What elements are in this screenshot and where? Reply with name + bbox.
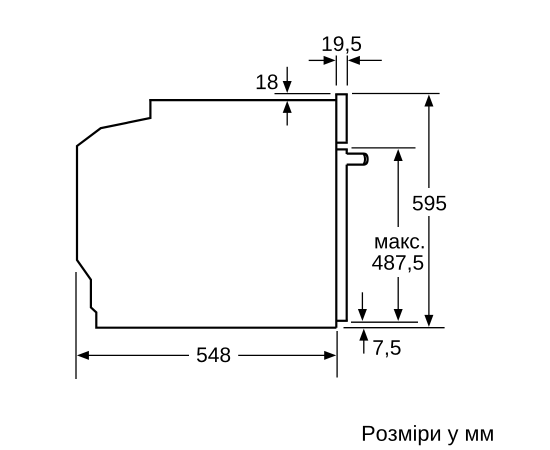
top extension line for 595 xyxy=(352,93,440,95)
dimension 548 left extension line xyxy=(75,272,77,379)
label макс. xyxy=(375,237,423,249)
door handle xyxy=(347,154,368,165)
label 487,5 xyxy=(372,255,423,272)
handle end cap arc xyxy=(364,154,365,164)
dimension 548 right extension line xyxy=(336,331,338,378)
dimension 595 bottom arrowhead xyxy=(424,315,433,327)
dimension 595 line upper segment xyxy=(428,106,430,188)
dimension 548 line right segment xyxy=(238,354,325,356)
label 18 xyxy=(257,74,278,89)
door top edge xyxy=(336,148,348,150)
dimension 595 line lower segment xyxy=(428,216,430,316)
dimension 19,5 left extension line xyxy=(335,56,337,86)
dimension 548 line left segment xyxy=(88,354,189,356)
dimension 18 upper arrowhead xyxy=(283,81,292,93)
dimension 18 lower arrow line xyxy=(286,113,288,126)
dimension 19,5 left arrow line xyxy=(309,59,324,61)
control panel top edge xyxy=(335,93,348,95)
label 19,5 xyxy=(323,36,361,53)
dimension 18 extension line xyxy=(275,93,331,95)
door right edge upper segment xyxy=(346,149,348,154)
dimension 595 top arrowhead xyxy=(424,95,433,107)
dimension 548 left arrowhead xyxy=(77,351,89,360)
caption Розміри у мм xyxy=(363,425,493,445)
dimension 19,5 right extension line xyxy=(346,56,348,86)
label 595 xyxy=(413,196,446,211)
dimension 7,5 lower arrowhead xyxy=(359,329,368,341)
dimension 7,5 upper arrowhead xyxy=(358,309,367,321)
dimension 18 upper arrow line xyxy=(286,67,288,82)
dimension max 487,5 line lower segment xyxy=(397,277,399,310)
handle-level extension line for max 487,5 xyxy=(352,147,416,149)
oven body top edge xyxy=(149,99,336,101)
dimension max 487,5 bottom arrowhead xyxy=(394,309,403,321)
control panel right edge xyxy=(346,94,348,141)
oven body right edge / niche front xyxy=(335,94,337,327)
dimension 7,5 upper arrow line xyxy=(361,292,363,309)
dimension 7,5 lower arrow line xyxy=(363,341,365,354)
dimension max 487,5 top arrowhead xyxy=(394,149,403,161)
label 548 xyxy=(197,347,230,362)
label 7,5 xyxy=(373,340,400,357)
dimension 19,5 right arrow line xyxy=(360,59,382,61)
control panel bottom edge xyxy=(336,142,348,144)
dimension 18 lower arrowhead xyxy=(283,101,292,113)
door right edge lower segment xyxy=(346,165,348,321)
door bottom extension line xyxy=(351,321,418,323)
dimension max 487,5 line upper segment xyxy=(397,161,399,228)
dimension 548 right arrowhead xyxy=(324,351,336,360)
door bottom edge xyxy=(336,320,348,322)
oven body outline xyxy=(77,99,336,328)
body bottom extension line xyxy=(344,327,445,329)
dimension 19,5 left arrowhead xyxy=(324,56,336,65)
dimension 19,5 right arrowhead xyxy=(348,56,360,65)
